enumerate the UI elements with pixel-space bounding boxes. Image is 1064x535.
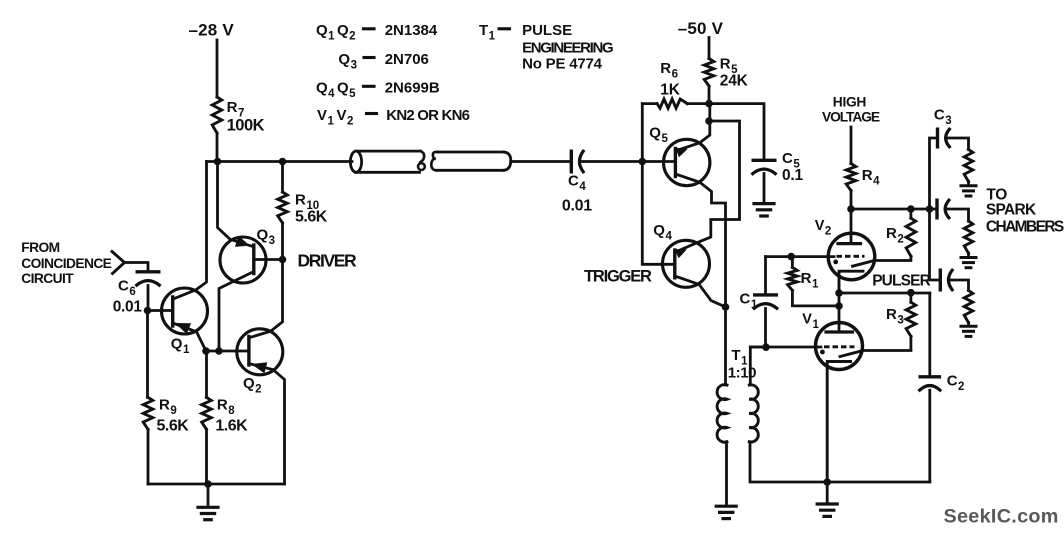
wire Q3 base to driver node	[254, 258, 283, 261]
transistor Q2 arrow	[251, 362, 267, 373]
wire T1 primary feed	[724, 307, 727, 385]
svg-text:1:10: 1:10	[728, 365, 756, 382]
resistor R5	[704, 59, 714, 87]
transistor Q4 circle	[663, 240, 710, 287]
wire R3 top	[910, 293, 913, 303]
resistor R6	[657, 99, 687, 108]
transistor Q2 circle	[237, 329, 283, 375]
coax cable 1 body	[356, 150, 421, 153]
node C1 bottom junction	[762, 343, 770, 351]
node R2 top junction	[907, 205, 915, 213]
wire V1 plate feed	[838, 293, 841, 332]
wire R2 top	[910, 209, 913, 218]
crossover wire Q4 upper to node	[675, 121, 740, 252]
svg-text:PULSER: PULSER	[872, 273, 930, 290]
wire Q5 base	[642, 160, 675, 163]
wire load2 stub	[967, 253, 970, 256]
node Q4 emitter junction	[722, 303, 730, 311]
svg-text:0.01: 0.01	[562, 198, 592, 215]
svg-text:0.01: 0.01	[113, 298, 143, 315]
wire T1 secondary bottom	[750, 442, 930, 482]
node R1 bottom junction	[835, 302, 843, 310]
wire C1 to grid line	[764, 309, 767, 348]
wire load1 stub	[967, 182, 970, 185]
wire mid cap to load R	[946, 209, 969, 221]
wire bus to R10	[281, 162, 284, 193]
wire Q1 collector riser	[173, 162, 207, 300]
svg-text:5.6K: 5.6K	[295, 209, 328, 226]
transformer T1 primary coil	[717, 385, 727, 443]
coax cable 2 right cap	[504, 152, 511, 170]
transistor Q5 base bar	[674, 149, 677, 177]
wire Q3 emitter riser	[218, 162, 254, 247]
wire top bus left	[207, 160, 353, 163]
capacitor C6	[137, 270, 159, 273]
node output bus junction	[823, 478, 831, 486]
wire load3 stub	[967, 323, 970, 325]
wire Q1 base	[148, 309, 173, 312]
resistor R7	[212, 97, 222, 133]
node Q3 collector junction	[215, 347, 223, 355]
wire R10 to driver node	[281, 223, 284, 260]
node bottom bus junction	[204, 480, 212, 488]
wire bottom bus	[148, 483, 285, 486]
transformer T1 secondary coil	[749, 385, 758, 442]
capacitor C5	[753, 159, 775, 162]
wire T1 primary to ground	[725, 442, 728, 505]
transistor Q4 arrow	[675, 249, 687, 258]
svg-text:No PE 4774: No PE 4774	[522, 56, 603, 73]
node driver junction	[279, 256, 287, 264]
svg-text:ENGINEERING: ENGINEERING	[522, 40, 613, 57]
tube V2 envelope	[828, 233, 875, 280]
svg-text:2N699B: 2N699B	[385, 80, 440, 97]
tube V1 envelope	[816, 323, 863, 370]
resistor spark load 3	[964, 290, 973, 322]
transistor Q3 circle	[220, 237, 266, 283]
wire R8 column	[205, 351, 208, 397]
resistor spark load 1	[964, 149, 973, 181]
transistor Q4 lower lead	[675, 276, 726, 307]
wire ground stub left	[207, 484, 210, 506]
resistor R1	[788, 267, 798, 290]
node R1 top junction	[787, 253, 795, 261]
node Q1 emitter junction	[202, 347, 210, 355]
svg-text:SPARK: SPARK	[986, 201, 1037, 218]
wire PULSER line	[839, 292, 930, 295]
capacitor C1	[755, 293, 777, 296]
resistor spark load 2	[964, 221, 973, 253]
wire C5 feed	[709, 104, 764, 161]
tube V1 plate	[826, 330, 853, 333]
capacitor output lower	[939, 270, 942, 290]
tube V2 cathode	[853, 261, 875, 267]
coax cable 1 left ellipse	[350, 151, 361, 172]
svg-text:KN2 OR KN6: KN2 OR KN6	[386, 107, 469, 124]
wire R3 bottom	[910, 336, 913, 349]
input arrow chevron	[112, 252, 125, 274]
svg-text:1.6K: 1.6K	[215, 418, 248, 435]
transistor Q1 circle	[162, 288, 208, 334]
node PULSER R3 junction	[907, 289, 915, 297]
svg-text:TRIGGER: TRIGGER	[584, 267, 652, 285]
capacitor C3	[936, 129, 939, 147]
svg-text:COINCIDENCE: COINCIDENCE	[21, 256, 111, 271]
node V2 cathode junction	[835, 289, 843, 297]
wire R4 to plate node	[850, 191, 853, 209]
wire C6 to Q1 base node	[147, 286, 150, 311]
transistor Q3 arrow (emitter, PNP in)	[235, 236, 250, 247]
node C4 trigger junction	[639, 158, 647, 166]
transistor Q1 arrow	[175, 323, 191, 334]
capacitor C2	[920, 375, 939, 378]
wire R1 top	[791, 257, 794, 268]
wire C2 to bottom bus	[928, 390, 931, 482]
node R5 R6 junction	[705, 100, 713, 108]
ground spark load 2	[961, 256, 976, 259]
wire plate line	[851, 208, 936, 211]
ground left stage	[198, 506, 218, 509]
node C3 branch junction	[926, 205, 934, 213]
node crossover junction	[705, 117, 713, 125]
svg-text:CIRCUIT: CIRCUIT	[21, 271, 74, 286]
ground output bus	[817, 502, 837, 505]
coax cable 1 torn end	[420, 151, 424, 162]
svg-text:–50 V: –50 V	[678, 19, 724, 38]
coax cable 2 torn end	[433, 152, 438, 159]
transistor Q5 circle	[664, 139, 710, 185]
wire R6 left corner	[642, 102, 657, 105]
node Q1 base junction	[144, 307, 152, 315]
wire V1 grid lead	[751, 346, 822, 349]
wire PULSER corner to C2	[928, 293, 931, 377]
resistor R2	[906, 218, 916, 256]
wire -50V to R5	[708, 38, 711, 59]
tube V1 starter dot	[820, 350, 825, 355]
wire Q1/Q2 junction line	[206, 350, 249, 353]
ground T1 primary	[716, 505, 736, 508]
transistor Q2 emitter	[249, 364, 285, 485]
wire Q3 collector	[219, 272, 254, 352]
transistor Q5 lower lead	[675, 174, 725, 307]
wire C5 to ground	[763, 174, 766, 203]
wire R1 bottom	[792, 291, 839, 306]
svg-text:0.1: 0.1	[782, 167, 804, 184]
wire C4 to trigger	[582, 160, 643, 163]
wire V1 cathode to R3	[862, 349, 911, 352]
svg-text:CHAMBERS: CHAMBERS	[986, 218, 1064, 235]
svg-text:PULSE: PULSE	[522, 22, 572, 39]
wire R2 bottom to V2 cathode	[875, 256, 911, 260]
svg-text:FROM: FROM	[21, 240, 59, 255]
wire C3 to load R	[948, 138, 969, 149]
svg-text:DRIVER: DRIVER	[298, 251, 357, 271]
ground C5	[754, 202, 774, 205]
tube V2 starter dot	[833, 260, 838, 265]
svg-text:SeekIC.com: SeekIC.com	[944, 506, 1059, 528]
transistor Q3 base bar	[252, 245, 255, 274]
node plate junction	[847, 205, 855, 213]
wire ground stub output bus	[826, 482, 829, 503]
transistor Q2 collector	[249, 260, 283, 338]
wire coax to C4	[511, 160, 571, 163]
wire R5 to node	[708, 86, 711, 104]
tube V2 grid (dashed)	[837, 255, 865, 258]
resistor R3	[906, 302, 916, 336]
wire lower cap riser	[930, 209, 940, 280]
transistor Q5 arrow	[676, 148, 688, 158]
wire R8 to bottom bus	[205, 429, 208, 484]
svg-text:HIGH: HIGH	[833, 95, 867, 110]
transistor Q1 base bar	[171, 297, 174, 326]
svg-text:VOLTAGE: VOLTAGE	[822, 110, 880, 125]
node R10-bus junction	[279, 158, 287, 166]
svg-text:1K: 1K	[660, 82, 680, 99]
node R7-bus junction	[214, 158, 222, 166]
wire trigger left rail	[642, 104, 675, 265]
resistor R9	[143, 397, 153, 429]
wire C3 riser	[930, 138, 938, 209]
svg-text:100K: 100K	[227, 116, 265, 134]
wire R6 right	[687, 102, 709, 105]
coax cable 2 body	[437, 151, 504, 154]
wire R9 to bottom bus	[147, 429, 150, 484]
wire V2 grid lead	[766, 255, 835, 258]
resistor R4	[846, 164, 856, 191]
wire T1 secondary top	[750, 347, 766, 385]
transistor Q2 base bar	[247, 337, 250, 366]
wire lower cap to load R	[950, 280, 969, 290]
wire HV to R4	[850, 127, 853, 164]
svg-text:2N706: 2N706	[385, 51, 429, 68]
tube V2 plate	[850, 209, 853, 244]
transistor Q1 emitter	[173, 323, 206, 351]
capacitor C4	[570, 151, 573, 172]
tube V1 bottom electrode	[827, 362, 850, 483]
tube V1 grid (dashed)	[824, 345, 855, 348]
wire -28V to R7	[216, 40, 219, 97]
ground spark load 3	[961, 325, 976, 328]
svg-text:–28 V: –28 V	[189, 21, 235, 40]
capacitor output mid	[935, 200, 938, 218]
resistor R10	[278, 192, 288, 223]
wire input to C6	[125, 263, 149, 272]
tube V2 bottom electrode	[839, 271, 863, 293]
transistor Q5 upper lead	[675, 104, 709, 151]
ground spark load 1	[961, 184, 976, 187]
tube V1 cathode	[840, 351, 862, 357]
resistor R8	[202, 397, 212, 429]
svg-text:2N1384: 2N1384	[385, 22, 438, 39]
wire R7 to bus	[216, 133, 219, 162]
wire R9 column	[146, 311, 149, 398]
svg-text:24K: 24K	[720, 73, 749, 90]
transistor Q4 base bar	[673, 250, 676, 278]
svg-text:5.6K: 5.6K	[157, 418, 190, 435]
wire C1 riser	[764, 257, 767, 295]
